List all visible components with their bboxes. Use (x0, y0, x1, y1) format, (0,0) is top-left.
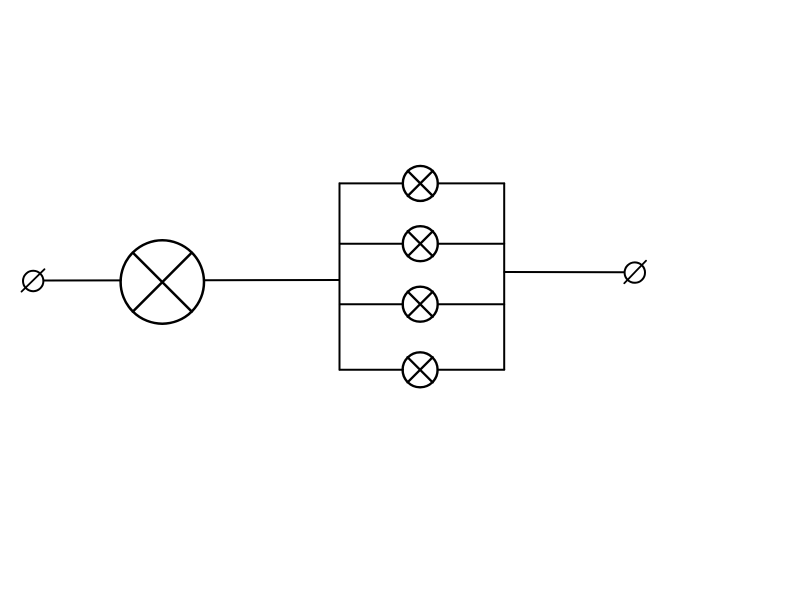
lamp E3 (403, 226, 438, 261)
wire: branch 3 right (438, 303, 505, 305)
wire: branch 1 left (340, 182, 404, 184)
wire: right bus junction (503, 183, 505, 370)
wire: branch 1 right (438, 182, 505, 184)
wire: branch 3 left (340, 303, 404, 305)
wire: right bus to terminal X2 (504, 271, 624, 273)
wire: branch 2 left (340, 243, 404, 245)
wire: E1 to left bus (204, 279, 340, 281)
wire: left bus junction (339, 183, 341, 370)
wire: branch 2 right (438, 243, 505, 245)
wire: branch 4 right (437, 369, 504, 371)
wire: branch 4 left (340, 369, 404, 371)
lamp E1 (121, 240, 204, 323)
wire: X1 to lamp E1 (44, 279, 121, 281)
lamp E2 (403, 166, 438, 201)
terminal X2 (right) (624, 261, 646, 284)
terminal X1 (left) (22, 269, 45, 291)
lamp E5 (403, 352, 438, 387)
lamp E4 (403, 287, 438, 322)
